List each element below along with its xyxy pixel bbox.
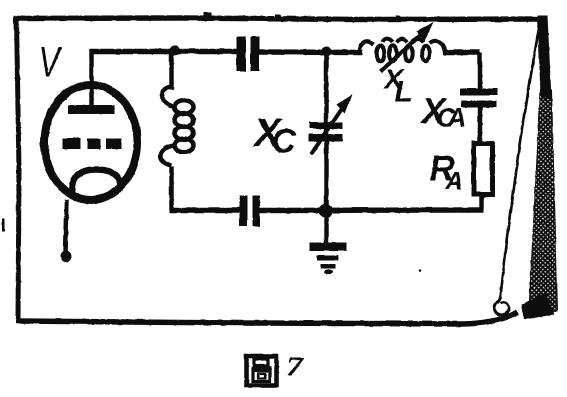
svg-text:L: L (394, 75, 412, 108)
svg-text:A: A (444, 167, 463, 195)
svg-text:7: 7 (286, 352, 305, 381)
svg-text:A: A (446, 102, 466, 132)
svg-text:V: V (38, 39, 63, 87)
svg-text:C: C (271, 122, 296, 160)
